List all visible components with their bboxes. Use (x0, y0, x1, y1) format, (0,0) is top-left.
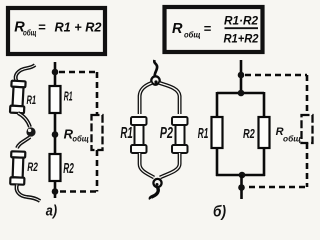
svg-text:R1: R1 (120, 125, 132, 142)
dashed wire top (a) (59, 71, 97, 74)
dashed wire bottom (a) (59, 190, 96, 193)
solder ball joint b bottom (153, 179, 161, 187)
svg-text:общ: общ (184, 29, 201, 39)
solder ball joint b top (151, 76, 159, 84)
node b lower (238, 184, 245, 191)
node top (a) (52, 69, 59, 76)
resistor R2 (schematic b) (259, 117, 270, 148)
svg-text:а): а) (46, 203, 57, 220)
left branch lower wire (b) (216, 147, 219, 176)
dashed wire top (b) (245, 74, 307, 77)
svg-text:R1+R2: R1+R2 (224, 31, 259, 45)
svg-text:R: R (172, 21, 183, 37)
right branch upper wire (b) (263, 92, 266, 118)
solder ball joint a (26, 127, 35, 136)
pictorial b: bottom right arc wire (160, 153, 180, 178)
svg-text:R1: R1 (27, 95, 37, 107)
pictorial b: bottom left arc wire (140, 153, 154, 178)
pictorial resistor R1 (b) body (131, 117, 147, 153)
pictorial resistor R2 lead wire (bottom) (16, 185, 40, 202)
top bus (b) (217, 92, 264, 95)
main vertical bottom (b) (240, 175, 243, 199)
dashed wire right lower (b) (306, 143, 309, 187)
node b T-junction (238, 90, 245, 97)
node b top (238, 72, 245, 79)
pictorial b: bottom comma squiggle (150, 188, 158, 200)
node middle (a) (52, 131, 59, 138)
right branch lower wire (b) (263, 147, 266, 176)
svg-text:общ: общ (23, 28, 37, 38)
formula B fraction bar (225, 27, 259, 29)
pictorial resistor R2 body (10, 151, 25, 184)
pictorial b: top right arc wire (160, 83, 180, 114)
svg-text:=: = (204, 21, 212, 36)
dashed wire right upper (b) (306, 75, 309, 115)
svg-text:Р2: Р2 (160, 125, 173, 142)
svg-text:R1: R1 (64, 89, 73, 104)
svg-text:=: = (38, 20, 46, 35)
formula box B border (165, 7, 263, 52)
pictorial resistor R2 (b) body (172, 117, 188, 153)
schematic a: main vertical wire (54, 62, 57, 198)
svg-text:R1·R2: R1·R2 (224, 13, 258, 27)
pictorial b: top left arc wire (140, 83, 152, 114)
pictorial resistor R1 body (10, 81, 26, 114)
svg-text:R2: R2 (243, 127, 255, 141)
node bottom (a) (52, 188, 59, 195)
bottom bus (b) (216, 174, 265, 177)
dashed wire bottom (b) (246, 186, 305, 189)
pictorial b: top flame squiggle (154, 60, 157, 77)
svg-text:R2: R2 (27, 162, 38, 174)
dashed wire right lower (a) (96, 150, 99, 192)
svg-text:б): б) (213, 204, 226, 221)
schematic b: main vertical top (240, 60, 243, 94)
svg-text:R1: R1 (198, 125, 209, 142)
resistor R2 (schematic a) (50, 154, 61, 181)
resistor R1 (schematic a) (50, 86, 61, 113)
pictorial resistor R1 lead wire (top) (16, 65, 35, 82)
left branch upper wire (b) (216, 92, 219, 118)
node b bottom bus (239, 172, 246, 179)
dashed wire right upper (a) (96, 72, 99, 115)
equivalent resistor Robsh (dashed, a) (92, 115, 103, 150)
resistor R1 (schematic b) (212, 117, 223, 148)
svg-text:общ: общ (283, 135, 302, 144)
svg-text:общ: общ (72, 134, 89, 143)
svg-text:R2: R2 (63, 161, 74, 177)
pictorial middle wire with solder ball (17, 113, 30, 148)
formula box A border (8, 8, 105, 54)
equivalent resistor Robsh (dashed, b) (302, 115, 313, 143)
svg-text:R1 + R2: R1 + R2 (55, 20, 103, 35)
